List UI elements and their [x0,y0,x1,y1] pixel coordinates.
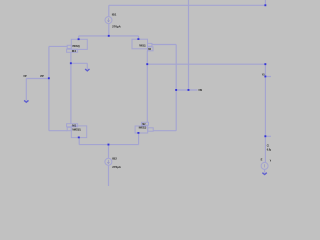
wire M2 source drop vertical [138,133,140,145]
wire into M3 drain top [138,36,140,39]
transistor M4 PMOS body box [67,39,88,52]
svg-text:M4: M4 [72,49,77,53]
junction VIP stub [48,77,50,79]
wire M1 source drop vertical [78,138,80,145]
junction IB1 mirror rail [108,35,110,37]
ground port arrow V1 [262,173,266,175]
svg-text:VO: VO [262,72,265,76]
transistor M1 gate tab [67,127,71,130]
wire VO right rail vertical [264,64,266,162]
transistor M4 gate tab [67,45,71,48]
wire VIM vertical rail right [175,45,177,131]
svg-text:E: E [261,158,263,162]
junction at top right rail [264,4,266,6]
wire into M4 drain top [78,36,80,39]
junction VIM rail [175,89,177,91]
wire VO horizontal to right rail [147,63,265,65]
wire M3 gate horizontal [152,44,176,46]
svg-text:IB2: IB2 [112,157,117,161]
wire IB2 bottom vertical off canvas [108,165,110,186]
junction inner left rail node A [70,62,72,64]
transistor M4 drain pin square [78,38,80,40]
transistor M1 source pin square [78,137,80,139]
svg-text:276µA: 276µA [112,165,122,169]
wire VIP stub horizontal [26,78,49,80]
svg-text:M3: M3 [148,47,151,51]
junction VO stub [264,76,266,78]
transistor M2 source pin square [137,132,139,134]
svg-text:276µA: 276µA [112,24,122,28]
wire VIM stub vertical from top [188,0,190,90]
wire VDD top rail horizontal [109,4,266,6]
junction tail rail IB2 [108,144,110,146]
wire source V1 bottom drop [264,169,266,172]
wire IB1 top vertical [108,5,110,16]
transistor M3 label box [148,47,154,51]
junction VO right rail [264,63,266,65]
svg-text:6.8p: 6.8p [267,148,271,152]
wire IB2 top vertical [108,145,110,159]
svg-text:V: V [270,159,271,163]
transistor M3 drain pin square [137,38,139,40]
wire inner right rail vertical M3-M2 [146,51,148,123]
svg-text:VIM: VIM [198,88,202,92]
wire VO stub right off canvas [265,76,271,78]
wire M2 gate horizontal [153,130,176,132]
svg-text:PMOS(1): PMOS(1) [139,44,146,48]
wire C1 stub right off canvas [265,135,271,137]
ground port arrow VIP [24,100,28,102]
transistor M3 gate tab [148,43,152,46]
transistor M2 gate tab [148,128,154,131]
junction VIM stub [188,89,190,91]
transistor M2 NMOS body box [135,122,153,133]
transistor M4 label box [67,49,78,52]
svg-text:PMOS(1): PMOS(1) [72,44,80,48]
svg-text:VIP: VIP [23,74,27,78]
current source IB1 arrow [107,18,109,22]
svg-text:IB1: IB1 [112,13,117,17]
wire inner left rail vertical M4-M1 [70,52,72,124]
svg-text:VIP: VIP [40,74,44,78]
wire M1 gate horizontal [49,130,67,132]
wire IB1 bottom vertical [108,24,110,36]
transistor M2 label box [142,122,149,125]
transistor M1 NMOS body box [67,124,87,138]
junction inner right rail VO [146,63,148,65]
junction C1 stub [264,135,266,137]
wire mirror rail horizontal M4-M3 [79,35,139,37]
voltage source V1 inner mark [264,164,266,167]
current source IB1 circle [105,17,112,24]
transistor M3 PMOS body box [132,39,153,51]
wire tail rail horizontal M1-M2 [79,144,138,146]
wire node A branch horizontal [71,62,87,64]
wire node A port drop vertical [86,63,88,69]
voltage source V1 circle bottom right [261,162,268,169]
current source IB2 arrow [107,160,109,164]
wire VIP vertical rail left [48,46,50,130]
transistor M1 label box [67,124,78,127]
wire stub up from node at top right [264,0,266,5]
ground port arrow node A [85,69,89,71]
wire VIM stub horizontal [176,89,197,91]
wire VIP port drop vertical [25,79,27,101]
current source IB2 circle [105,158,112,165]
svg-text:NMOS(1): NMOS(1) [139,125,146,129]
wire M4 gate horizontal [49,45,67,47]
svg-text:NMOS(1): NMOS(1) [72,128,81,132]
